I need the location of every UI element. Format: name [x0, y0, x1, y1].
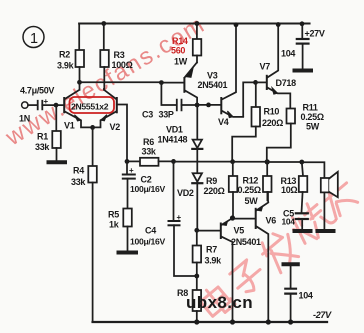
node R8 top junction [194, 274, 199, 279]
svg-text:100μ/16V: 100μ/16V [130, 237, 165, 247]
transistor V2 [116, 98, 118, 112]
highlight box 2N5551x2 [70, 97, 115, 113]
wire C2 to R5 [127, 179, 129, 209]
resistor R5 [123, 209, 132, 227]
svg-text:5W: 5W [306, 122, 320, 132]
svg-text:V6: V6 [266, 216, 277, 226]
ground under C5 [295, 229, 311, 233]
resistor R13 [299, 176, 308, 192]
wire C5 bottom lead [301, 219, 303, 230]
node V7 collector rail junction [276, 22, 281, 27]
svg-text:R1: R1 [37, 132, 48, 142]
wire R12 top lead [266, 162, 268, 176]
capacitor C5 104 [296, 212, 308, 214]
ground under R5 [119, 251, 137, 255]
node diff pair emitter junction [90, 125, 95, 130]
wire output rail middle [174, 161, 233, 163]
wire R13 top lead [302, 162, 303, 176]
capacitor C4 100u/16V [173, 161, 175, 220]
svg-text:0.25Ω: 0.25Ω [301, 112, 324, 122]
svg-text:1N: 1N [19, 114, 30, 124]
wire R8 top lead [196, 276, 198, 290]
wire R2 top lead [78, 24, 80, 51]
node C3 branch junction [159, 80, 164, 85]
node V1 collector junction [77, 80, 82, 85]
svg-text:C3: C3 [142, 110, 153, 120]
transistor V3 [183, 78, 185, 92]
label +27V [305, 29, 325, 39]
ground under speaker [318, 229, 334, 233]
resistor R11 [287, 109, 296, 124]
svg-text:R11: R11 [303, 103, 318, 113]
svg-text:C4: C4 [145, 226, 156, 236]
ground under 104 top right [295, 69, 312, 73]
wire V1 collector node to V3 base [80, 81, 162, 83]
wire R12 bottom to V6 emitter [266, 192, 268, 200]
wire R1 top lead [55, 105, 57, 131]
svg-text:1W: 1W [174, 57, 188, 67]
svg-text:220Ω: 220Ω [204, 186, 225, 196]
svg-text:R9: R9 [206, 176, 217, 186]
wire R9 bottom to V5 emitter node [232, 192, 234, 218]
wire C4 bottom to R7/R8 node [174, 225, 197, 276]
ground under R1 [49, 160, 66, 164]
svg-text:R14: R14 [172, 36, 188, 46]
svg-text:V7: V7 [260, 62, 271, 72]
wire R6 to C4 node [159, 160, 174, 162]
ground above 104 bottom right [284, 262, 298, 266]
svg-text:2N5551x2: 2N5551x2 [71, 102, 109, 112]
svg-text:VD2: VD2 [177, 188, 194, 198]
node V5 emitter junction [230, 215, 235, 220]
svg-text:33k: 33k [142, 147, 157, 157]
watermark ubx8.cn [186, 293, 253, 312]
wire R10 bottom to output rail [232, 127, 256, 162]
wire V4 emitter to V7 base [243, 82, 255, 116]
wire C3 to V3 collector node [182, 104, 198, 106]
svg-text:560: 560 [171, 46, 185, 56]
svg-text:V4: V4 [218, 117, 229, 127]
svg-text:33k: 33k [71, 177, 86, 187]
wire R4 bottom to bottom rail [92, 183, 94, 323]
watermark dianzifashaoyou hanzi strokes [197, 175, 360, 320]
wire R10 top lead [255, 82, 257, 107]
wire R1 bottom lead [56, 148, 58, 161]
node feedback junction [125, 159, 130, 164]
node V4 base junction [206, 103, 211, 108]
resistor R14 [193, 39, 202, 56]
resistor R1 [52, 131, 61, 148]
svg-text:1N4148: 1N4148 [158, 135, 188, 145]
capacitor C2 100u/16V [126, 161, 128, 174]
capacitor 104 top right [301, 24, 303, 39]
svg-text:D718: D718 [276, 78, 297, 88]
svg-text:33P: 33P [159, 110, 174, 120]
transistor V5 [220, 224, 222, 239]
svg-text:R3: R3 [114, 50, 125, 60]
svg-text:1k: 1k [109, 220, 120, 230]
diode VD2 [193, 173, 202, 182]
wire R11 bottom to R12 node [267, 124, 291, 162]
resistor R2 [76, 50, 85, 67]
svg-text:104: 104 [281, 49, 295, 59]
node R12 junction [265, 159, 270, 164]
resistor R8 [193, 290, 202, 311]
label -27V [313, 310, 332, 320]
resistor R7 [193, 246, 202, 263]
wire R7 bottom to node [196, 263, 198, 277]
node V3 collector junction [195, 103, 200, 108]
wire VD2 to V5 base node [196, 183, 198, 231]
wire R13 bottom to C5 [302, 192, 303, 213]
wire output rail [127, 160, 140, 162]
wire V5 emitter node to V6 base [233, 218, 256, 220]
node 104 junction [288, 319, 293, 324]
wire R8 bottom to rail [196, 311, 198, 322]
svg-text:C2: C2 [141, 175, 152, 185]
input terminal [22, 102, 28, 108]
svg-text:33k: 33k [35, 142, 50, 152]
svg-text:5W: 5W [245, 196, 259, 206]
svg-text:VD1: VD1 [166, 125, 183, 135]
top +27V rail wire [79, 22, 309, 24]
svg-text:R7: R7 [206, 245, 217, 255]
wire V2 base lead [117, 105, 127, 162]
svg-text:3.9k: 3.9k [205, 256, 223, 266]
transistor V6 [255, 209, 257, 228]
svg-text:104: 104 [299, 291, 313, 301]
wire R3 top lead [103, 24, 105, 51]
node C4 junction [171, 159, 176, 164]
svg-text:0.25Ω: 0.25Ω [238, 185, 261, 195]
transistor V4 [220, 98, 222, 113]
transistor V1 [63, 98, 65, 112]
svg-text:+: + [177, 213, 182, 222]
wire R2 bottom to V1 collector node [79, 67, 81, 82]
svg-text:100μ/16V: 100μ/16V [130, 184, 165, 194]
node V7 base junction [253, 80, 258, 85]
resistor R12 [263, 176, 272, 192]
svg-text:3.9k: 3.9k [57, 61, 75, 71]
svg-text:220Ω: 220Ω [262, 118, 283, 128]
svg-text:ubx8.cn: ubx8.cn [186, 293, 253, 312]
svg-text:1: 1 [30, 31, 38, 47]
wire output rail to R13 [267, 161, 302, 163]
node R13 junction [299, 160, 304, 165]
wire to V4 base [197, 104, 221, 106]
node R14 top junction [195, 21, 200, 26]
node V5 base junction [194, 228, 199, 233]
watermark www.elecfans.com [0, 11, 210, 152]
resistor R9 [229, 176, 238, 192]
node V4 collector rail junction [234, 22, 239, 27]
svg-text:R2: R2 [59, 50, 70, 60]
svg-text:2N5401: 2N5401 [231, 237, 261, 247]
svg-text:R10: R10 [264, 107, 280, 117]
wire R7 top lead [196, 230, 198, 245]
svg-text:V2: V2 [110, 122, 121, 132]
resistor R3 [100, 50, 109, 67]
diode VD1 [196, 105, 198, 140]
wire VD1 to VD2 [196, 149, 198, 173]
svg-text:10Ω: 10Ω [281, 185, 297, 195]
wire R5 bottom lead [127, 227, 129, 252]
svg-text:R5: R5 [108, 210, 119, 220]
svg-text:-27V: -27V [313, 310, 332, 320]
svg-text:+: + [129, 166, 134, 175]
transistor V7 [266, 76, 268, 89]
resistor R4 [88, 166, 97, 183]
wire output rail to speaker [302, 162, 325, 178]
bottom -27V rail wire [93, 321, 327, 323]
node R8 bottom junction [194, 319, 199, 324]
svg-text:V1: V1 [64, 121, 75, 131]
node V5 collector junction [230, 319, 235, 324]
node R3 top junction [101, 21, 106, 26]
capacitor C1 4.7u/50V [38, 101, 43, 110]
wire R9 top lead [232, 162, 234, 176]
svg-text:+27V: +27V [305, 29, 325, 39]
node 104 cap rail junction [300, 21, 305, 26]
wire speaker bottom lead [323, 192, 325, 229]
svg-text:R4: R4 [73, 166, 84, 176]
wire input to C1 [28, 104, 37, 106]
wire V7 base lead [256, 81, 267, 83]
wire R4 top lead [92, 127, 94, 166]
wire R3 bottom to V2 collector [103, 67, 105, 89]
svg-text:104: 104 [282, 217, 296, 227]
speaker [321, 178, 329, 192]
capacitor 104 bottom right [290, 266, 292, 288]
capacitor C3 33P [161, 83, 176, 105]
svg-text:100Ω: 100Ω [112, 60, 133, 70]
wire output rail right [233, 161, 268, 163]
svg-text:R6: R6 [143, 137, 154, 147]
node R9 junction [230, 159, 235, 164]
wire C1 to V1 base [42, 104, 64, 106]
wire R14 top lead [196, 24, 198, 40]
wire R14 bottom to V3 emitter [196, 56, 198, 63]
svg-text:2N5401: 2N5401 [198, 80, 228, 90]
svg-text:R12: R12 [243, 176, 259, 186]
wire node to V3 base bar [161, 82, 184, 84]
resistor R10 [252, 107, 261, 127]
svg-text:V5: V5 [234, 226, 245, 236]
node V6 collector junction [266, 319, 271, 324]
node input junction [54, 103, 59, 108]
circled figure number 1 [23, 27, 44, 48]
svg-text:4.7μ/50V: 4.7μ/50V [20, 86, 54, 96]
svg-text:V3: V3 [207, 71, 218, 81]
resistor R6 [140, 158, 159, 166]
